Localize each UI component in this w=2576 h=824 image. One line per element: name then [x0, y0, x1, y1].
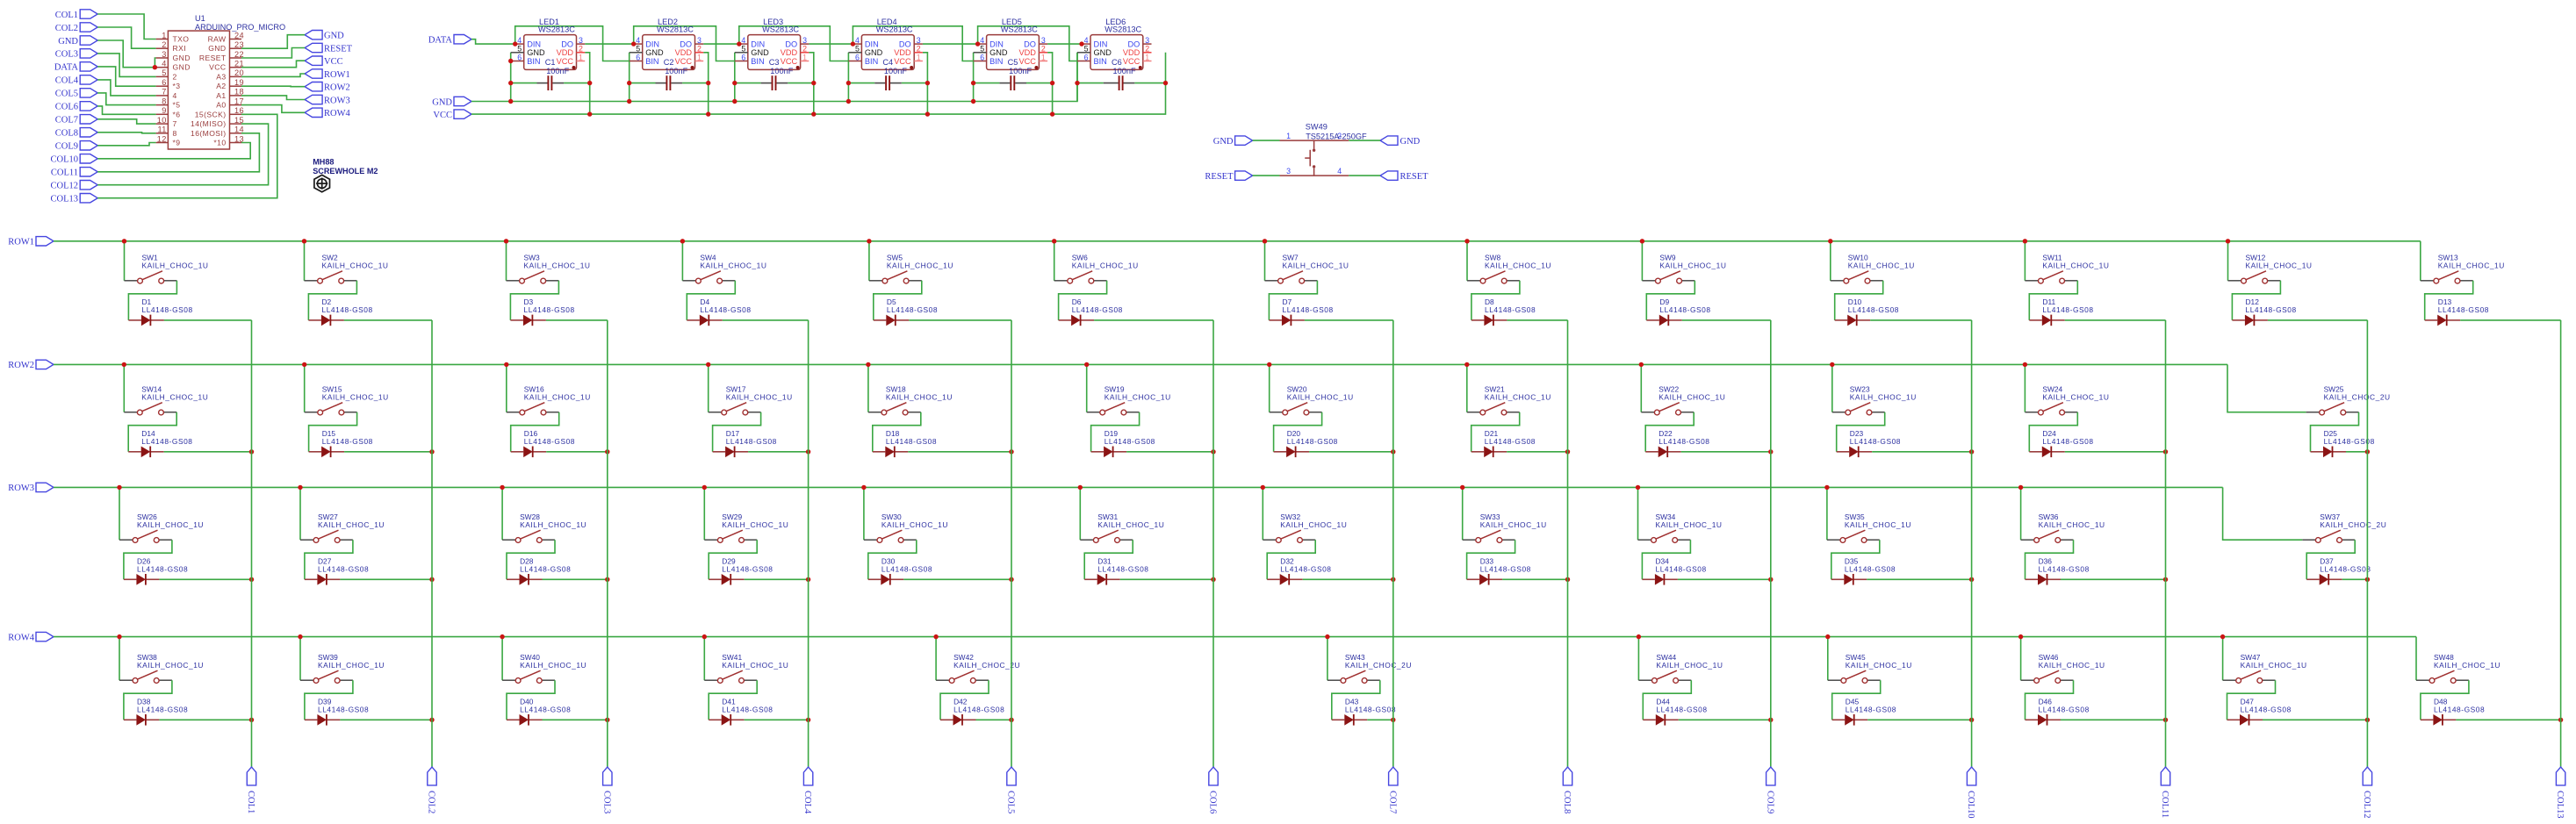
- svg-text:LL4148-GS08: LL4148-GS08: [726, 437, 777, 446]
- wire COL8 vertical: [1567, 320, 1569, 767]
- diode D38 LL4148-GS08: [124, 698, 188, 726]
- net flag COL1 (bottom): [246, 767, 256, 813]
- diode D27 LL4148-GS08: [305, 557, 369, 585]
- svg-text:LL4148-GS08: LL4148-GS08: [1848, 305, 1899, 314]
- diode D17 LL4148-GS08: [713, 429, 777, 457]
- wire ROW4 to SW45: [1827, 637, 1829, 681]
- net flag COL13 (left of U1): [51, 194, 98, 204]
- svg-text:KAILH_CHOC_1U: KAILH_CHOC_1U: [700, 262, 766, 270]
- diode D29 LL4148-GS08: [709, 557, 773, 585]
- junction COL9 D44: [1768, 718, 1773, 722]
- svg-text:100nF: 100nF: [770, 67, 793, 75]
- net flag ROW2 (right of U1): [305, 82, 350, 93]
- svg-text:5: 5: [1084, 45, 1089, 54]
- wire DATA to U1 pin 6: [97, 67, 155, 86]
- svg-text:DIN: DIN: [865, 40, 879, 49]
- wire ROW3 to SW32: [1262, 487, 1263, 540]
- net flag RESET (left of SW49): [1205, 171, 1252, 182]
- wire D30 to COL5: [903, 578, 1011, 580]
- wire ROW2 to SW14: [123, 364, 125, 412]
- junction COL3 D28: [605, 577, 609, 582]
- wire ROW1 to SW8: [1466, 241, 1468, 281]
- svg-text:VCC: VCC: [433, 111, 452, 120]
- svg-text:GND: GND: [173, 54, 191, 62]
- net flag COL2 (left of U1): [55, 23, 97, 33]
- wire D24 to COL11: [2065, 451, 2166, 453]
- wire U1 pin 18 to ROW3: [241, 96, 305, 100]
- net flag COL2 (bottom): [427, 767, 437, 813]
- svg-text:COL12: COL12: [51, 182, 79, 191]
- svg-text:COL9: COL9: [1765, 791, 1774, 813]
- diode D43 LL4148-GS08: [1332, 698, 1396, 726]
- svg-text:GND: GND: [324, 32, 344, 41]
- wire ROW3 to SW31: [1079, 487, 1081, 540]
- svg-text:KAILH_CHOC_1U: KAILH_CHOC_1U: [137, 520, 204, 529]
- wire D3 to COL3: [546, 319, 608, 321]
- svg-text:COL10: COL10: [1966, 791, 1975, 819]
- svg-text:1: 1: [697, 53, 702, 61]
- net flag COL8 (bottom): [1562, 767, 1572, 813]
- net flag COL9 (bottom): [1765, 767, 1775, 813]
- svg-text:TS5215A-250GF: TS5215A-250GF: [1306, 133, 1367, 141]
- svg-text:LL4148-GS08: LL4148-GS08: [1659, 437, 1709, 446]
- svg-text:LL4148-GS08: LL4148-GS08: [141, 437, 192, 446]
- junction COL4 D29: [806, 577, 810, 582]
- junction ROW1 SW7: [1263, 239, 1267, 243]
- wire LED5 bypass right: [1026, 82, 1053, 84]
- svg-text:GND: GND: [865, 48, 883, 57]
- svg-text:ROW1: ROW1: [324, 70, 350, 80]
- svg-text:2: 2: [579, 45, 583, 54]
- wire LED3 GND vertical: [734, 53, 736, 102]
- svg-text:KAILH_CHOC_1U: KAILH_CHOC_1U: [1656, 661, 1723, 670]
- junction COL13 D48: [2558, 718, 2563, 722]
- capacitor C5 100nF: [999, 58, 1032, 90]
- junction LED1 DIN: [513, 41, 517, 46]
- wire ROW2 to SW19: [1086, 364, 1088, 412]
- net flag COL11 (left of U1): [51, 168, 97, 178]
- net flag DATA (LED strip): [428, 35, 471, 46]
- svg-text:KAILH_CHOC_1U: KAILH_CHOC_1U: [1283, 262, 1349, 270]
- switch SW25 KAILH_CHOC_2U: [2306, 384, 2391, 415]
- diode D37 LL4148-GS08: [2306, 557, 2371, 585]
- svg-text:LL4148-GS08: LL4148-GS08: [2438, 305, 2489, 314]
- wire ROW2 to SW23: [1831, 364, 1833, 412]
- wire COL9 vertical: [1770, 320, 1772, 767]
- wire COL5 to U1 pin 8: [97, 93, 155, 105]
- wire LED5 bypass left: [974, 82, 1000, 84]
- switch SW44 KAILH_CHOC_1U: [1638, 653, 1723, 684]
- svg-text:COL7: COL7: [1387, 791, 1397, 813]
- junction ROW3 SW29: [702, 485, 707, 490]
- svg-text:RAW: RAW: [208, 35, 227, 44]
- wire ROW3 to SW35: [1826, 487, 1828, 540]
- wire SW44 to D44: [1643, 680, 1691, 720]
- wire D21 to COL8: [1507, 451, 1567, 453]
- svg-text:1: 1: [1286, 132, 1291, 140]
- diode D21 LL4148-GS08: [1471, 429, 1536, 457]
- svg-text:BIN: BIN: [865, 57, 878, 66]
- wire U1 pin 22 to RESET: [241, 48, 305, 59]
- svg-text:5: 5: [855, 45, 860, 54]
- svg-text:KAILH_CHOC_1U: KAILH_CHOC_1U: [322, 262, 389, 270]
- junction ROW4 SW38: [117, 634, 121, 639]
- wire D10 to COL10: [1870, 319, 1971, 321]
- wire SW1 to D1: [128, 281, 176, 320]
- diode D11 LL4148-GS08: [2029, 297, 2093, 326]
- net flag DATA (left of U1): [54, 62, 97, 73]
- svg-text:LL4148-GS08: LL4148-GS08: [2039, 564, 2090, 573]
- svg-text:3: 3: [162, 50, 167, 59]
- switch SW16 KAILH_CHOC_1U: [507, 384, 591, 415]
- svg-text:*9: *9: [173, 139, 181, 147]
- svg-text:BIN: BIN: [989, 57, 1003, 66]
- wire LED3 bypass right: [788, 82, 814, 84]
- svg-text:16(MOSI): 16(MOSI): [191, 129, 226, 138]
- LED2 WS2813C: [630, 18, 704, 69]
- wire D17 to COL4: [748, 451, 809, 453]
- wire D29 to COL4: [745, 578, 809, 580]
- svg-text:KAILH_CHOC_1U: KAILH_CHOC_1U: [141, 393, 208, 402]
- wire U1 pin 20 to ROW1: [241, 74, 305, 76]
- svg-text:3: 3: [917, 36, 921, 45]
- wire ROW1 to SW13: [2420, 241, 2421, 281]
- svg-text:3: 3: [1145, 36, 1149, 45]
- svg-text:KAILH_CHOC_1U: KAILH_CHOC_1U: [722, 661, 788, 670]
- diode D42 LL4148-GS08: [940, 698, 1004, 726]
- wire COL3 vertical: [607, 320, 608, 767]
- svg-text:LL4148-GS08: LL4148-GS08: [886, 437, 937, 446]
- svg-text:LL4148-GS08: LL4148-GS08: [1283, 305, 1334, 314]
- junction LED3 DIN: [737, 41, 741, 46]
- diode D9 LL4148-GS08: [1646, 297, 1710, 326]
- svg-text:DO: DO: [561, 40, 573, 49]
- IC U1 ARDUINO_PRO_MICRO: [156, 14, 286, 149]
- svg-text:TXO: TXO: [173, 35, 190, 44]
- svg-text:VCC: VCC: [675, 57, 693, 66]
- svg-text:5: 5: [741, 45, 745, 54]
- svg-text:ROW2: ROW2: [324, 83, 350, 93]
- svg-text:6: 6: [162, 78, 167, 87]
- svg-text:COL1: COL1: [55, 11, 78, 20]
- svg-text:15(SCK): 15(SCK): [195, 110, 227, 118]
- svg-text:U1: U1: [195, 14, 205, 23]
- wire ROW1 to SW7: [1264, 241, 1266, 281]
- diode D44 LL4148-GS08: [1643, 698, 1707, 726]
- wire COL8 to U1 pin 11: [97, 133, 155, 133]
- svg-text:1: 1: [802, 53, 807, 61]
- diode D18 LL4148-GS08: [873, 429, 937, 457]
- wire D27 to COL2: [340, 578, 432, 580]
- svg-text:KAILH_CHOC_1U: KAILH_CHOC_1U: [2434, 661, 2500, 670]
- switch SW12 KAILH_CHOC_1U: [2228, 253, 2313, 283]
- wire ROW1 to SW12: [2227, 241, 2229, 281]
- junction COL5 D18: [1009, 449, 1013, 454]
- svg-text:WS2813C: WS2813C: [538, 25, 575, 34]
- wire ROW2 to SW20: [1269, 364, 1270, 412]
- svg-text:LL4148-GS08: LL4148-GS08: [137, 705, 188, 713]
- wire D37 to COL12: [2342, 578, 2368, 580]
- svg-text:DATA: DATA: [54, 63, 79, 73]
- wire D31 to COL6: [1120, 578, 1213, 580]
- switch SW13 KAILH_CHOC_1U: [2421, 253, 2505, 283]
- wire COL1 to U1 pin 1: [97, 14, 155, 39]
- svg-text:LL4148-GS08: LL4148-GS08: [953, 705, 1004, 713]
- svg-text:ARDUINO_PRO_MICRO: ARDUINO_PRO_MICRO: [195, 23, 285, 32]
- svg-text:4: 4: [980, 36, 984, 45]
- diode D26 LL4148-GS08: [124, 557, 188, 585]
- wire COL12 to U1 pin 15: [97, 124, 268, 185]
- svg-text:LL4148-GS08: LL4148-GS08: [1485, 305, 1536, 314]
- svg-text:DIN: DIN: [751, 40, 765, 49]
- svg-text:LL4148-GS08: LL4148-GS08: [137, 564, 188, 573]
- wire COL10 vertical: [1971, 320, 1973, 767]
- wire LED3 VDD vertical: [809, 53, 814, 114]
- junction ROW1 SW9: [1640, 239, 1644, 243]
- net flag COL6 (left of U1): [55, 102, 97, 112]
- wire COL13 to U1 pin 16: [97, 114, 277, 197]
- wire LED1 bypass right: [564, 82, 590, 84]
- svg-text:9: 9: [162, 106, 167, 115]
- wire ROW4 to SW46: [2020, 637, 2022, 681]
- wire ROW2 to SW25: [2227, 364, 2306, 412]
- diode D33 LL4148-GS08: [1467, 557, 1531, 585]
- diode D45 LL4148-GS08: [1832, 698, 1896, 726]
- wire ROW1 rail: [54, 240, 2421, 242]
- switch SW29 KAILH_CHOC_1U: [704, 512, 788, 543]
- svg-text:LL4148-GS08: LL4148-GS08: [2434, 705, 2485, 713]
- junction COL11 D36: [2163, 577, 2168, 582]
- net flag RESET (right of SW49): [1380, 171, 1428, 182]
- junction ROW1 SW2: [302, 239, 306, 243]
- svg-text:WS2813C: WS2813C: [1001, 25, 1038, 34]
- switch SW2 KAILH_CHOC_1U: [305, 253, 389, 283]
- svg-text:LL4148-GS08: LL4148-GS08: [1097, 564, 1148, 573]
- wire SW4 to D4: [687, 281, 735, 320]
- wire LED2 DO to LED3 DIN: [703, 43, 739, 45]
- wire ROW3 to SW27: [299, 487, 301, 540]
- svg-text:C1: C1: [545, 58, 556, 67]
- wire LED6 GND vertical: [1076, 53, 1078, 102]
- svg-text:1: 1: [579, 53, 583, 61]
- svg-text:RESET: RESET: [1400, 172, 1429, 182]
- svg-text:VCC: VCC: [209, 63, 226, 72]
- svg-text:100nF: 100nF: [665, 67, 687, 75]
- wire SW19 to D19: [1091, 412, 1140, 452]
- svg-text:14(MISO): 14(MISO): [191, 119, 226, 128]
- svg-text:KAILH_CHOC_1U: KAILH_CHOC_1U: [318, 520, 385, 529]
- svg-text:4: 4: [517, 36, 522, 45]
- svg-text:10: 10: [157, 116, 167, 125]
- junction COL12 D47: [2365, 718, 2370, 722]
- net flag ROW3 (matrix left): [8, 483, 54, 493]
- svg-text:COL13: COL13: [51, 195, 79, 204]
- svg-text:RXI: RXI: [173, 44, 187, 53]
- wire ROW2 to SW18: [867, 364, 869, 412]
- junction LED1 rails: [508, 99, 513, 104]
- svg-text:KAILH_CHOC_1U: KAILH_CHOC_1U: [2042, 262, 2109, 270]
- svg-text:COL11: COL11: [2160, 791, 2169, 818]
- junction LED4 DIN: [851, 41, 855, 46]
- wire SW18 to D18: [873, 412, 921, 452]
- wire U1 GND pin3 strap: [155, 58, 155, 68]
- junction COL11 D46: [2163, 718, 2168, 722]
- svg-text:6: 6: [741, 53, 745, 61]
- svg-text:VCC: VCC: [1123, 57, 1140, 66]
- wire SW27 to D27: [305, 540, 353, 579]
- junction COL10 D45: [1969, 718, 1974, 722]
- svg-text:COL9: COL9: [55, 142, 78, 152]
- wire COL2 to U1 pin 2: [97, 27, 155, 48]
- svg-text:GND: GND: [751, 48, 769, 57]
- wire D34 to COL9: [1678, 578, 1771, 580]
- svg-text:DO: DO: [1024, 40, 1036, 49]
- svg-text:GND: GND: [208, 44, 226, 53]
- svg-text:1: 1: [1145, 53, 1149, 61]
- junction COL11 D24: [2163, 449, 2168, 454]
- svg-text:3: 3: [1286, 167, 1291, 176]
- wire SW32 to D32: [1267, 540, 1315, 579]
- svg-text:A1: A1: [216, 91, 226, 100]
- junction ROW1 SW4: [680, 239, 685, 243]
- junction COL8 D33: [1565, 577, 1570, 582]
- svg-text:GND: GND: [989, 48, 1008, 57]
- wire LED2 DIN loop to LED3 BIN: [634, 26, 735, 61]
- wire SW31 to D31: [1084, 540, 1133, 579]
- junction ROW3 SW33: [1460, 485, 1464, 490]
- junction COL3 D16: [605, 449, 609, 454]
- svg-text:BIN: BIN: [1094, 57, 1107, 66]
- junction COL2 D27: [429, 577, 434, 582]
- svg-text:COL5: COL5: [55, 90, 78, 99]
- wire D46 to COL11: [2061, 719, 2166, 720]
- junction LED4 bypass: [846, 81, 851, 85]
- net flag VCC (right of U1): [305, 56, 342, 67]
- wire D18 to COL5: [908, 451, 1011, 453]
- svg-text:6: 6: [517, 53, 522, 61]
- wire ROW2 to SW21: [1466, 364, 1468, 412]
- wire ROW3 to SW33: [1462, 487, 1464, 540]
- svg-text:KAILH_CHOC_1U: KAILH_CHOC_1U: [1659, 262, 1726, 270]
- diode D23 LL4148-GS08: [1837, 429, 1901, 457]
- svg-text:3: 3: [579, 36, 583, 45]
- junction COL9 D22: [1768, 449, 1773, 454]
- wire ROW4 to SW48: [2415, 637, 2417, 681]
- switch SW26 KAILH_CHOC_1U: [119, 512, 204, 543]
- svg-text:ROW4: ROW4: [8, 633, 34, 642]
- svg-text:24: 24: [234, 31, 244, 39]
- wire ROW2 rail: [54, 363, 2227, 365]
- svg-text:COL2: COL2: [427, 791, 436, 813]
- svg-text:LL4148-GS08: LL4148-GS08: [322, 305, 373, 314]
- junction ROW2 SW17: [706, 362, 710, 367]
- svg-text:KAILH_CHOC_1U: KAILH_CHOC_1U: [1846, 661, 1912, 670]
- wire D1 to COL1: [164, 319, 252, 321]
- svg-text:KAILH_CHOC_1U: KAILH_CHOC_1U: [726, 393, 793, 402]
- svg-text:LL4148-GS08: LL4148-GS08: [2042, 305, 2093, 314]
- net flag GND (left of U1): [58, 36, 97, 47]
- wire ROW1 to SW1: [124, 241, 126, 281]
- wire ROW2 to SW16: [506, 364, 507, 412]
- wire D15 to COL2: [344, 451, 432, 453]
- junction COL10 D23: [1969, 449, 1974, 454]
- junction ROW3 SW32: [1261, 485, 1265, 490]
- junction ROW3 SW26: [117, 485, 121, 490]
- diode D12 LL4148-GS08: [2232, 297, 2296, 326]
- wire LED4 bypass left: [848, 82, 874, 84]
- svg-text:KAILH_CHOC_1U: KAILH_CHOC_1U: [1848, 262, 1915, 270]
- junction LED1 bypass: [508, 81, 513, 85]
- svg-text:3: 3: [697, 36, 702, 45]
- wire ROW3 to SW28: [501, 487, 503, 540]
- wire D23 to COL10: [1872, 451, 1971, 453]
- svg-text:LL4148-GS08: LL4148-GS08: [722, 705, 773, 713]
- svg-text:100nF: 100nF: [884, 67, 907, 75]
- svg-text:LL4148-GS08: LL4148-GS08: [887, 305, 938, 314]
- svg-text:1: 1: [1041, 53, 1046, 61]
- wire SW49 to GND: [1349, 140, 1380, 141]
- diode D2 LL4148-GS08: [308, 297, 372, 326]
- svg-text:COL6: COL6: [1208, 791, 1218, 813]
- svg-text:VDD: VDD: [675, 48, 693, 57]
- junction ROW3 SW28: [500, 485, 504, 490]
- net flag ROW2 (matrix left): [8, 360, 54, 370]
- svg-text:KAILH_CHOC_1U: KAILH_CHOC_1U: [887, 262, 953, 270]
- junction LED5 rails: [971, 99, 975, 104]
- net flag GND (right of U1): [305, 31, 344, 41]
- svg-text:KAILH_CHOC_1U: KAILH_CHOC_1U: [524, 393, 591, 402]
- wire SW12 to D12: [2232, 281, 2280, 320]
- svg-text:4: 4: [1084, 36, 1089, 45]
- wire D44 to COL9: [1679, 719, 1771, 720]
- svg-text:KAILH_CHOC_1U: KAILH_CHOC_1U: [142, 262, 209, 270]
- wire ROW1 to SW4: [681, 241, 683, 281]
- svg-text:LL4148-GS08: LL4148-GS08: [1845, 564, 1896, 573]
- svg-text:LL4148-GS08: LL4148-GS08: [142, 305, 193, 314]
- wire DATA to LED1 DIN: [471, 39, 515, 44]
- svg-text:KAILH_CHOC_1U: KAILH_CHOC_1U: [1105, 393, 1171, 402]
- wire SW45 to D45: [1832, 680, 1881, 720]
- junction U1 GND pins: [153, 65, 157, 69]
- svg-text:8: 8: [173, 129, 177, 138]
- wire D43 to COL7: [1367, 719, 1393, 720]
- svg-text:KAILH_CHOC_2U: KAILH_CHOC_2U: [2324, 393, 2391, 402]
- svg-text:SW49: SW49: [1306, 123, 1328, 132]
- wire D14 to COL1: [164, 451, 252, 453]
- svg-text:COL6: COL6: [55, 103, 78, 112]
- junction ROW3 SW27: [298, 485, 302, 490]
- junction ROW4 SW46: [2018, 634, 2023, 639]
- junction ROW4 SW42: [933, 634, 938, 639]
- wire SW37 to D37: [2306, 540, 2355, 579]
- net flag COL9 (left of U1): [55, 141, 97, 152]
- wire SW34 to D34: [1642, 540, 1690, 579]
- svg-text:VDD: VDD: [1123, 48, 1140, 57]
- wire D28 to COL3: [543, 578, 608, 580]
- svg-text:KAILH_CHOC_1U: KAILH_CHOC_1U: [881, 520, 948, 529]
- diode D7 LL4148-GS08: [1269, 297, 1333, 326]
- wire LED5 DO to LED6 DIN: [1047, 43, 1082, 45]
- wire ROW4 rail: [54, 636, 2416, 638]
- diode D3 LL4148-GS08: [510, 297, 574, 326]
- svg-text:LL4148-GS08: LL4148-GS08: [318, 564, 369, 573]
- svg-text:LL4148-GS08: LL4148-GS08: [1105, 437, 1155, 446]
- wire COL10 to U1 pin 13: [97, 143, 250, 159]
- svg-text:COL4: COL4: [802, 791, 812, 814]
- switch SW1 KAILH_CHOC_1U: [125, 253, 209, 283]
- svg-text:ROW4: ROW4: [324, 109, 350, 118]
- wire D22 to COL9: [1681, 451, 1771, 453]
